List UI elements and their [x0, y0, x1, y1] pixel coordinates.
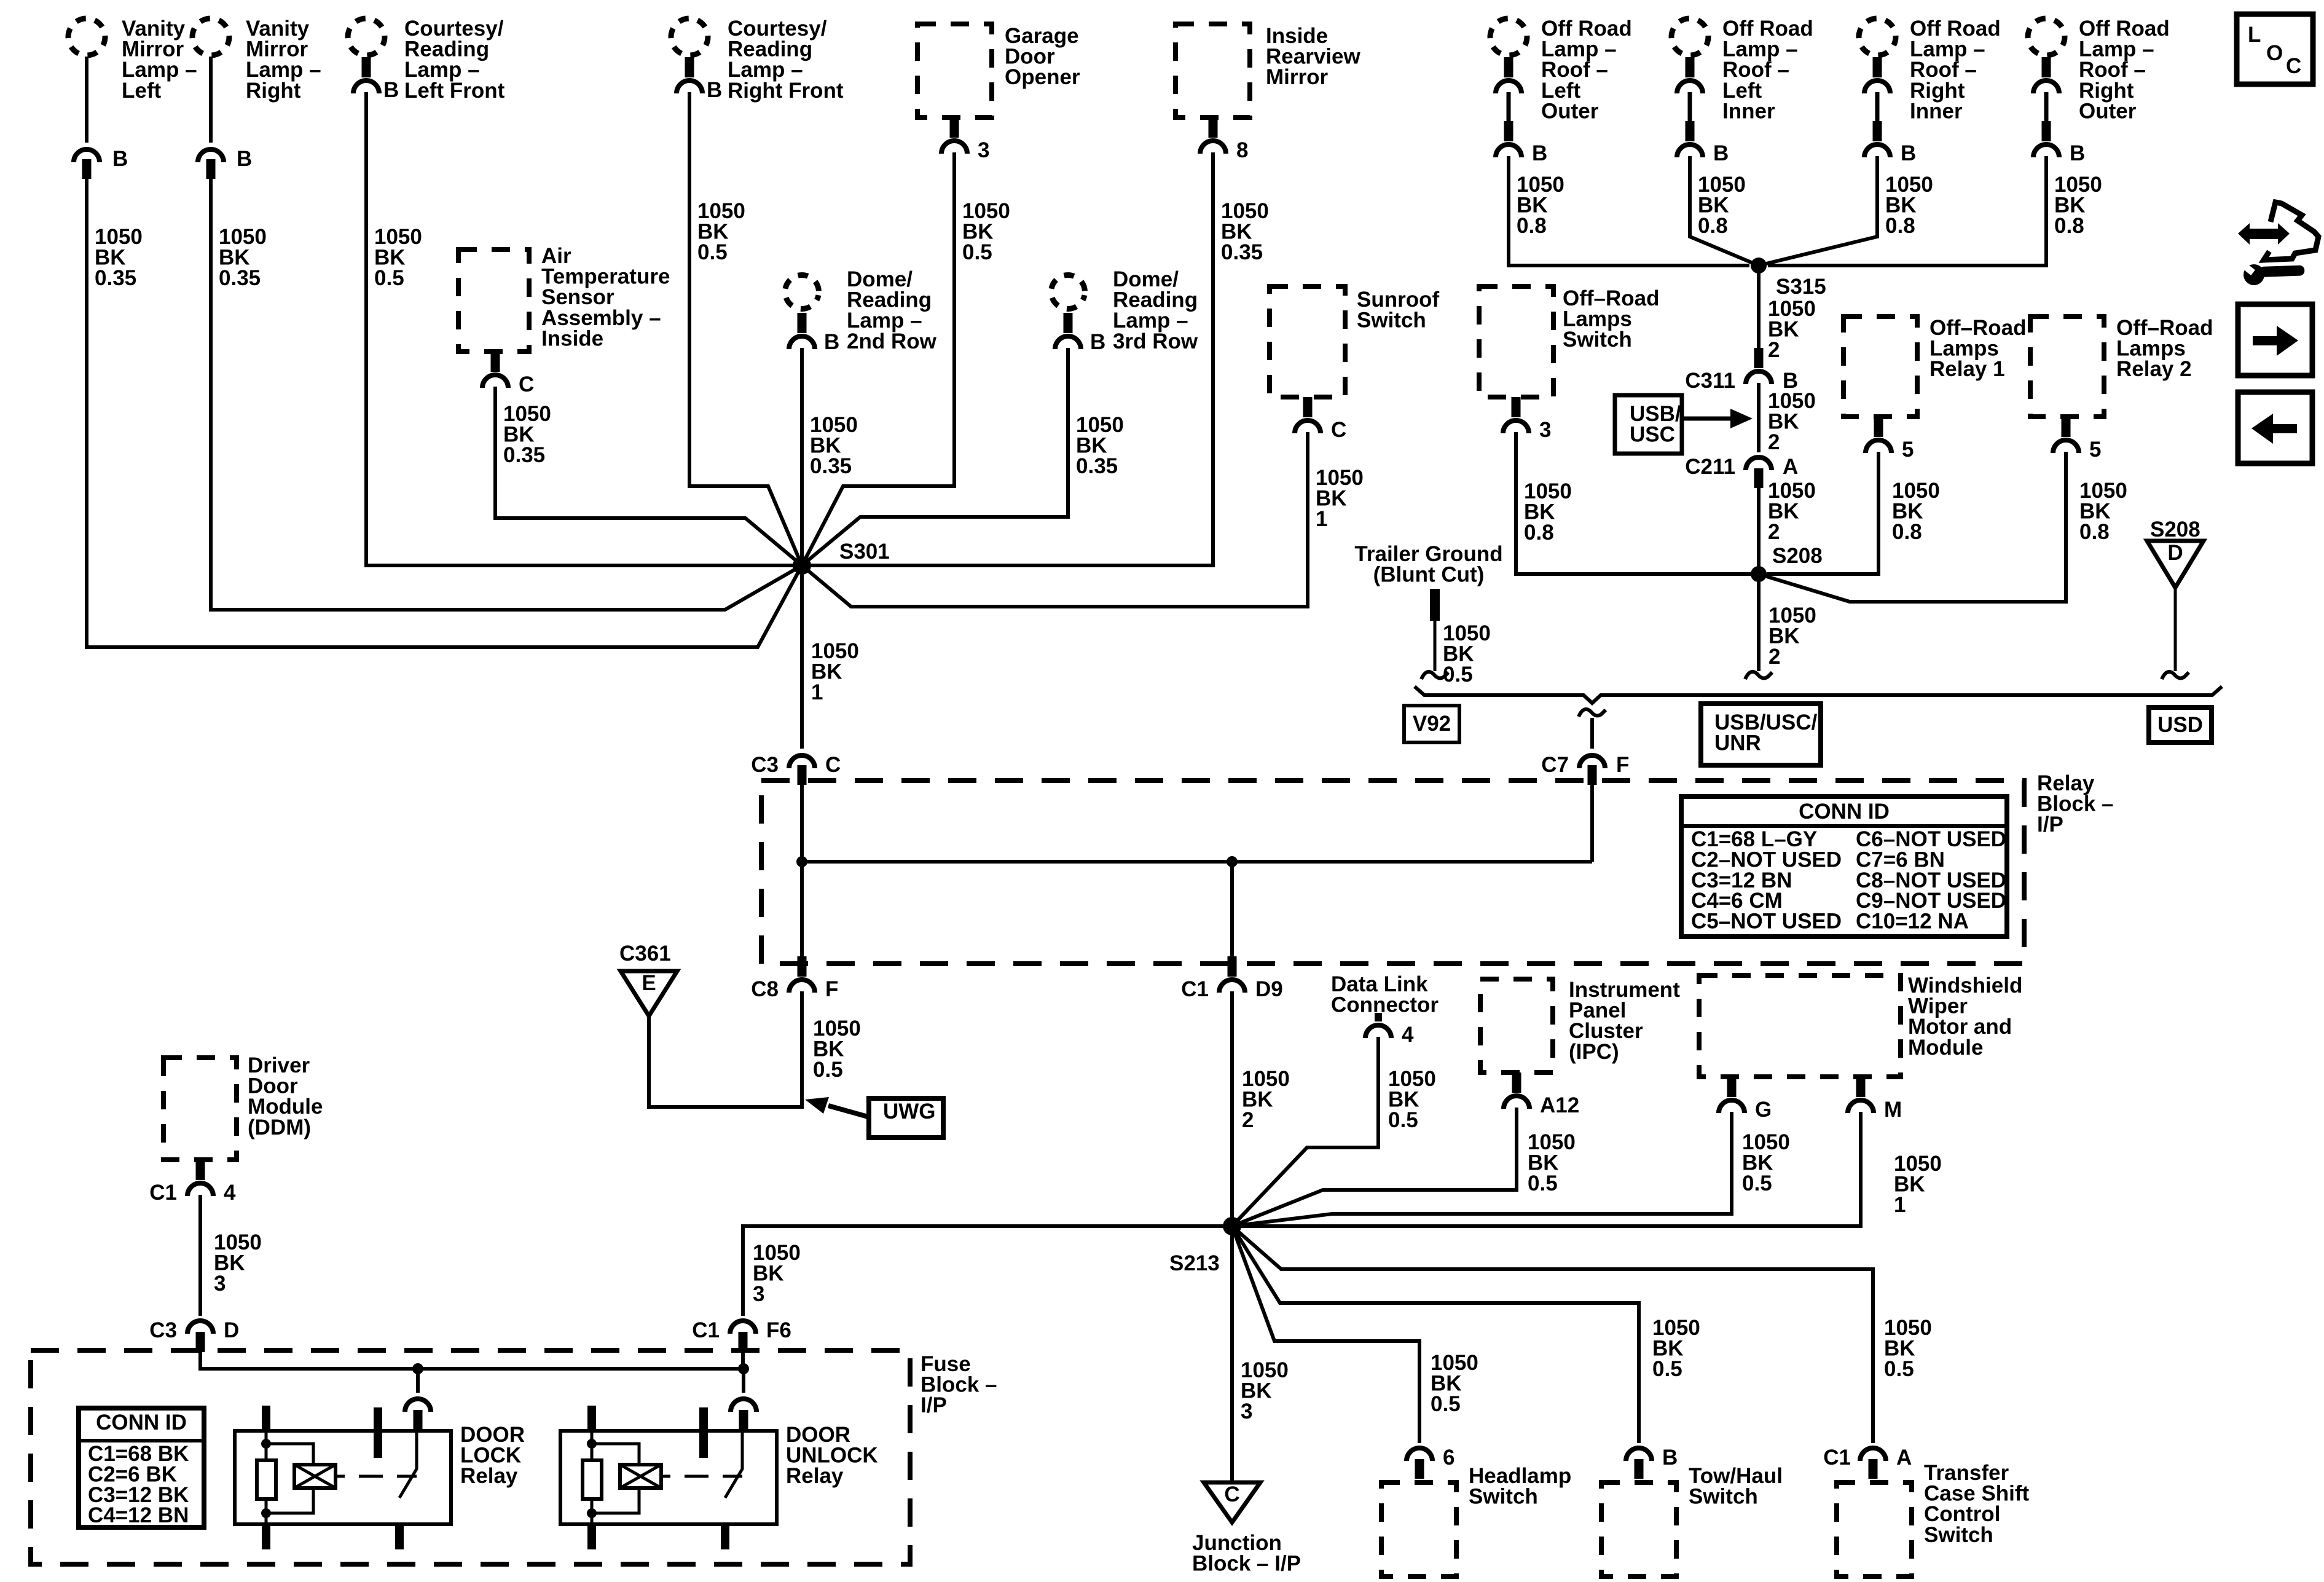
- wire C1 F6 into fuse block: [741, 1352, 745, 1369]
- connector B (off road Right Inner): [1864, 92, 1916, 165]
- svg-text:0.35: 0.35: [1221, 240, 1263, 264]
- svg-text:3: 3: [753, 1282, 764, 1306]
- component: Off-Road Lamps Switch: [1479, 286, 1660, 397]
- svg-text:Left: Left: [122, 79, 162, 103]
- svg-text:Relay: Relay: [460, 1464, 518, 1488]
- svg-text:Inside: Inside: [541, 326, 603, 350]
- svg-text:S301: S301: [839, 540, 890, 564]
- svg-text:B: B: [1090, 330, 1105, 354]
- svg-text:0.35: 0.35: [503, 443, 545, 467]
- svg-text:D9: D9: [1255, 977, 1283, 1001]
- wire vanity left to connector: [85, 57, 88, 143]
- svg-text:C8: C8: [751, 977, 779, 1001]
- component: Fuse Block - I/P: [31, 1350, 997, 1564]
- ground S208 D triangle: [2147, 517, 2204, 679]
- splice node S315: [1751, 258, 1826, 299]
- svg-text:0.8: 0.8: [1698, 214, 1728, 238]
- wire 1050 BK 1 S301 down to C3: [802, 565, 859, 749]
- svg-text:0.8: 0.8: [1885, 214, 1915, 238]
- svg-text:O: O: [2266, 41, 2283, 65]
- lamp connector (off road Left Inner): [1677, 57, 1703, 93]
- svg-text:C361: C361: [619, 942, 671, 966]
- svg-text:E: E: [642, 971, 656, 995]
- svg-text:2: 2: [1769, 645, 1780, 669]
- wire 1050 BK 0.5 S213 to tow/haul switch: [1232, 1226, 1700, 1443]
- svg-text:2: 2: [1768, 520, 1780, 544]
- svg-text:Right: Right: [246, 79, 301, 103]
- svg-text:(IPC): (IPC): [1569, 1040, 1619, 1064]
- component: Headlamp Switch: [1381, 1464, 1571, 1576]
- relay label: [460, 1423, 525, 1488]
- svg-text:C1: C1: [149, 1181, 177, 1205]
- svg-text:B: B: [824, 330, 839, 354]
- svg-text:C: C: [519, 372, 534, 396]
- wire 1050 BK 0.5 GDO to S301: [802, 152, 1010, 565]
- svg-text:C3: C3: [751, 753, 779, 777]
- lamp connector (off road Right Outer): [2033, 57, 2059, 93]
- component: Garage Door Opener: [917, 24, 1080, 117]
- wire vanity right to connector: [209, 57, 213, 143]
- svg-text:Connector: Connector: [1331, 993, 1439, 1017]
- svg-text:3: 3: [1241, 1399, 1252, 1423]
- connector B (tow/haul switch): [1626, 1446, 1678, 1479]
- svg-text:0.5: 0.5: [1652, 1357, 1682, 1381]
- wire 1050 BK 0.8 off road right inner to S315: [1759, 156, 1933, 266]
- svg-text:Switch: Switch: [1924, 1523, 1993, 1547]
- lamp connector (off road Right Inner): [1864, 57, 1890, 93]
- svg-text:0.5: 0.5: [697, 240, 728, 264]
- svg-text:D: D: [224, 1318, 239, 1342]
- svg-text:D: D: [2167, 541, 2183, 565]
- connector C211 A: [1685, 455, 1798, 488]
- connector G (wiper): [1719, 1077, 1772, 1122]
- svg-text:2nd Row: 2nd Row: [847, 329, 937, 353]
- wire 1050 BK 2 S315 to C311: [1759, 266, 1816, 362]
- icon: arrow left box: [2238, 392, 2312, 463]
- svg-text:C1: C1: [692, 1318, 720, 1342]
- connector C (sunroof switch): [1295, 397, 1346, 442]
- svg-text:Switch: Switch: [1469, 1485, 1538, 1509]
- lamp: Off Road Lamp - Roof - Left Inner: [1668, 15, 1813, 124]
- svg-text:2: 2: [1242, 1108, 1254, 1132]
- wire 1050 BK 2 C1 D9 to S213: [1232, 991, 1290, 1226]
- junction block I/P triangle C: [1192, 1482, 1301, 1576]
- component: Instrument Panel Cluster (IPC): [1480, 978, 1680, 1072]
- wire C3 to junction inside relay block: [800, 785, 804, 862]
- connector B (courtesy RF): [677, 57, 722, 102]
- connector B (off road Left Inner): [1677, 92, 1729, 165]
- wire 1050 BK 3 S213 to junction block: [1232, 1226, 1289, 1482]
- component: Windshield Wiper Motor and Module: [1699, 974, 2022, 1077]
- wire 1050 BK 0.8 relay 1 to S208: [1767, 452, 1940, 574]
- component: Inside Rearview Mirror: [1176, 24, 1360, 117]
- svg-text:0.8: 0.8: [1892, 520, 1922, 544]
- svg-text:C1: C1: [1823, 1446, 1851, 1470]
- wire 1050 BK 0.35 dome 2nd row to S301: [802, 348, 858, 565]
- svg-text:Relay: Relay: [786, 1464, 844, 1488]
- wire 1050 BK 0.5 S213 to headlamp switch: [1232, 1226, 1478, 1443]
- svg-text:USD: USD: [2157, 713, 2203, 737]
- svg-text:0.35: 0.35: [95, 266, 136, 290]
- connector 3 (garage door opener): [941, 117, 989, 162]
- svg-text:B: B: [383, 78, 399, 102]
- net label USD: [2149, 707, 2212, 742]
- wire 1050 BK 1 M to S213: [1241, 1112, 1942, 1226]
- svg-text:B: B: [237, 147, 252, 171]
- svg-text:UWG: UWG: [883, 1100, 936, 1124]
- svg-text:CONN ID: CONN ID: [96, 1411, 187, 1434]
- wire 1050 BK 0.8 off road right outer to S315: [1768, 156, 2102, 266]
- component: Transfer Case Shift Control Switch: [1837, 1461, 2029, 1576]
- wire C7 into relay block: [1590, 785, 1594, 862]
- wire 1050 BK 0.8 off-road switch to S208: [1516, 432, 1751, 574]
- svg-text:Switch: Switch: [1689, 1485, 1758, 1509]
- connector C8 F: [751, 956, 838, 1001]
- svg-text:S213: S213: [1169, 1251, 1220, 1275]
- svg-text:0.5: 0.5: [962, 240, 992, 264]
- svg-text:S208: S208: [1772, 544, 1823, 568]
- svg-text:Inner: Inner: [1910, 99, 1963, 123]
- svg-text:F: F: [825, 977, 838, 1001]
- lamp: Off Road Lamp - Roof - Right Inner: [1856, 15, 2001, 124]
- lamp: Courtesy/Reading Lamp - Left Front: [345, 15, 505, 103]
- svg-text:C: C: [1331, 418, 1346, 442]
- svg-text:C3: C3: [149, 1318, 177, 1342]
- svg-text:Switch: Switch: [1357, 309, 1426, 333]
- connector 5 (relay 1): [1866, 417, 1914, 462]
- wire 1050 BK 0.8 off road left inner to S315: [1690, 156, 1759, 266]
- svg-text:1: 1: [811, 680, 823, 704]
- conn id table (fuse block): [79, 1408, 204, 1527]
- svg-text:A: A: [1783, 455, 1798, 479]
- svg-text:4: 4: [224, 1181, 236, 1205]
- connector 3 (off-road lamps switch): [1503, 397, 1551, 442]
- connector M (wiper): [1848, 1077, 1902, 1122]
- svg-text:C10=12 NA: C10=12 NA: [1856, 910, 1969, 934]
- component: Tow/Haul Switch: [1601, 1464, 1783, 1576]
- splice node S213: [1169, 1217, 1241, 1275]
- wire 1050 BK 0.35 air temp to S301: [495, 387, 802, 565]
- svg-text:0.35: 0.35: [810, 454, 852, 478]
- svg-text:0.8: 0.8: [1517, 214, 1547, 238]
- svg-text:Block – I/P: Block – I/P: [1192, 1552, 1301, 1576]
- svg-text:B: B: [1532, 141, 1547, 165]
- connector 8 (inside rearview mirror): [1200, 117, 1248, 162]
- connector B (off road Left Outer): [1496, 92, 1547, 165]
- data link connector: [1331, 972, 1439, 1047]
- svg-text:3: 3: [1539, 418, 1551, 442]
- svg-text:Outer: Outer: [2079, 99, 2137, 123]
- wire 1050 BK 0.8 relay 2 to S208: [1759, 452, 2127, 602]
- component: Off-Road Lamps Relay 1: [1843, 316, 2027, 417]
- wire 1050 BK 0.35 vanity left to S301: [87, 179, 802, 647]
- svg-text:2: 2: [1768, 430, 1780, 454]
- svg-text:A12: A12: [1540, 1093, 1579, 1117]
- svg-text:0.8: 0.8: [2054, 214, 2084, 238]
- svg-text:0.5: 0.5: [374, 266, 404, 290]
- lamp: Dome/Reading Lamp - 3rd Row: [1048, 267, 1198, 353]
- svg-text:C: C: [2286, 54, 2301, 78]
- connector B (off road Right Outer): [2033, 92, 2085, 165]
- wire 1050 BK 2 S208 down to harness break: [1745, 574, 1816, 679]
- component: Driver Door Module (DDM): [163, 1053, 323, 1160]
- wire 1050 BK 0.5 DLC to S213: [1232, 1037, 1436, 1226]
- wire C3 D into fuse block bus: [200, 1352, 749, 1374]
- svg-text:L: L: [2248, 23, 2261, 47]
- svg-text:Opener: Opener: [1005, 65, 1080, 89]
- svg-text:Inner: Inner: [1722, 99, 1775, 123]
- svg-text:0.8: 0.8: [2079, 520, 2110, 544]
- svg-text:6: 6: [1443, 1446, 1454, 1470]
- svg-text:(DDM): (DDM): [248, 1116, 311, 1139]
- wire 1050 BK 0.35 IRM to S301: [802, 152, 1269, 565]
- icon: navigation wrench: [2238, 202, 2318, 285]
- wire 1050 BK 0.5 courtesy RF to S301: [689, 92, 802, 565]
- svg-text:0.8: 0.8: [1524, 521, 1554, 545]
- relay box: [560, 1406, 777, 1549]
- wire 1050 BK 2 C211 to S208: [1759, 479, 1816, 574]
- svg-text:USC: USC: [1630, 423, 1675, 447]
- wire 1050 BK 0.5 C8 to C361 ground: [649, 991, 861, 1107]
- wire horizontal inside relay block: [796, 856, 1592, 867]
- svg-text:8: 8: [1236, 138, 1248, 162]
- connector C1 D9: [1181, 956, 1283, 1001]
- svg-text:C1: C1: [1181, 977, 1209, 1001]
- relay connector from bus: [731, 1369, 756, 1430]
- component: Off-Road Lamps Relay 2: [2030, 316, 2213, 417]
- net label USB/USC/UNR: [1701, 704, 1821, 765]
- connector B (vanity right): [198, 147, 252, 179]
- wire 1050 BK 1 sunroof to S301: [802, 432, 1364, 607]
- svg-text:C: C: [825, 753, 841, 777]
- svg-text:C7: C7: [1541, 753, 1569, 777]
- harness brace: [1415, 687, 2222, 703]
- svg-text:0.5: 0.5: [1431, 1392, 1461, 1416]
- svg-text:3: 3: [978, 138, 989, 162]
- component: Relay Block - I/P: [761, 771, 2114, 964]
- svg-text:Switch: Switch: [1563, 328, 1632, 352]
- connector C311 B: [1685, 348, 1798, 393]
- svg-text:0.5: 0.5: [1388, 1108, 1418, 1132]
- ground C361 E triangle: [619, 942, 677, 1016]
- svg-text:0.5: 0.5: [813, 1058, 843, 1082]
- connector B (vanity left): [74, 147, 128, 179]
- conn id table (relay block): [1681, 797, 2007, 937]
- wire 1050 BK 0.35 dome 3rd row to S301: [802, 348, 1124, 565]
- splice node S208: [1751, 544, 1823, 582]
- svg-text:Left Front: Left Front: [404, 79, 505, 103]
- svg-text:S315: S315: [1776, 275, 1826, 299]
- wire 1050 BK 0.5 G to S213: [1232, 1112, 1790, 1226]
- connector C1 A (transfer case switch): [1823, 1446, 1912, 1479]
- svg-text:F: F: [1616, 753, 1629, 777]
- svg-text:5: 5: [2089, 438, 2101, 462]
- wire 1050 BK 2 C311 to C211: [1759, 383, 1816, 454]
- svg-text:1: 1: [1316, 507, 1327, 531]
- lamp: Courtesy/Reading Lamp - Right Front: [668, 15, 844, 103]
- svg-text:I/P: I/P: [2037, 813, 2063, 836]
- lamp: Vanity Mirror Lamp - Left: [65, 15, 197, 103]
- lamp: Off Road Lamp - Roof - Left Outer: [1487, 15, 1632, 124]
- svg-text:C: C: [1224, 1482, 1239, 1506]
- svg-text:1: 1: [1894, 1193, 1906, 1217]
- net label V92: [1404, 706, 1459, 742]
- svg-text:B: B: [1662, 1446, 1678, 1470]
- connector B (courtesy LF): [353, 57, 399, 102]
- svg-text:C211: C211: [1685, 455, 1735, 479]
- connector B (dome 2nd row): [789, 313, 839, 354]
- svg-text:Mirror: Mirror: [1266, 65, 1329, 89]
- svg-text:S208: S208: [2150, 517, 2200, 541]
- connector 5 (relay 2): [2053, 417, 2101, 462]
- connector C3 C: [751, 753, 841, 785]
- connector C3 D: [149, 1318, 239, 1352]
- svg-text:V92: V92: [1413, 712, 1451, 736]
- wire 1050 BK 0.5 courtesy LF to S301: [366, 92, 802, 565]
- icon: arrow right box: [2238, 304, 2312, 376]
- svg-text:B: B: [112, 147, 128, 171]
- svg-text:Relay 2: Relay 2: [2116, 357, 2192, 381]
- wire 1050 BK 0.5 S213 to transfer case switch: [1232, 1226, 1932, 1443]
- wire 1050 BK 3 DDM to C3 D: [200, 1195, 262, 1316]
- svg-text:0.5: 0.5: [1528, 1171, 1558, 1195]
- svg-text:F6: F6: [766, 1318, 791, 1342]
- svg-text:3: 3: [214, 1272, 226, 1296]
- wire 1050 BK 0.5 A12 to S213: [1232, 1108, 1576, 1226]
- connector C1 4 (DDM): [149, 1160, 236, 1205]
- trailer ground (blunt cut): [1354, 542, 1502, 687]
- connector B (dome 3rd row): [1055, 313, 1105, 354]
- svg-text:UNR: UNR: [1714, 731, 1761, 755]
- svg-text:CONN ID: CONN ID: [1799, 800, 1890, 824]
- svg-text:Module: Module: [1908, 1036, 1983, 1060]
- lamp: Dome/Reading Lamp - 2nd Row: [782, 267, 937, 353]
- connector C1 F6: [692, 1318, 791, 1352]
- wire junction down to C1 D9: [1230, 862, 1234, 958]
- lamp: Off Road Lamp - Roof - Right Outer: [2025, 15, 2170, 124]
- svg-text:2: 2: [1768, 338, 1780, 362]
- wire brace to C7: [1579, 709, 1606, 749]
- svg-text:I/P: I/P: [921, 1393, 947, 1417]
- relay label: [786, 1423, 878, 1488]
- component: Air Temperature Sensor Assembly - Inside: [458, 244, 670, 352]
- wire 1050 BK 0.8 off road left outer to S315: [1509, 156, 1749, 266]
- relay connector from bus: [405, 1369, 431, 1430]
- relay box: [235, 1406, 451, 1549]
- svg-text:0.5: 0.5: [1742, 1171, 1772, 1195]
- svg-text:4: 4: [1402, 1023, 1414, 1047]
- svg-text:B: B: [707, 78, 722, 102]
- label UWG with arrow: [805, 1097, 943, 1138]
- svg-text:0.35: 0.35: [219, 266, 261, 290]
- svg-text:Outer: Outer: [1541, 99, 1599, 123]
- svg-text:0.5: 0.5: [1884, 1357, 1914, 1381]
- svg-text:Right Front: Right Front: [728, 79, 844, 103]
- component: Sunroof Switch: [1270, 286, 1439, 397]
- svg-text:B: B: [2070, 141, 2085, 165]
- svg-text:Relay 1: Relay 1: [1929, 357, 2005, 381]
- connector 6 (headlamp switch): [1407, 1446, 1454, 1479]
- svg-text:B: B: [1901, 141, 1916, 165]
- svg-text:(Blunt Cut): (Blunt Cut): [1373, 563, 1485, 587]
- wire 1050 BK 0.35 vanity right to S301: [211, 179, 802, 610]
- svg-text:C4=12 BN: C4=12 BN: [88, 1503, 189, 1527]
- icon: LOC box: [2237, 14, 2313, 84]
- wire junction down to C8: [800, 862, 804, 958]
- svg-text:G: G: [1755, 1098, 1772, 1122]
- svg-text:A: A: [1896, 1446, 1912, 1470]
- svg-text:0.35: 0.35: [1076, 454, 1118, 478]
- label USB/USC with arrow: [1615, 395, 1753, 454]
- connector A12 (IPC): [1504, 1072, 1579, 1117]
- svg-text:B: B: [1713, 141, 1729, 165]
- lamp connector (off road Left Outer): [1496, 57, 1521, 93]
- svg-text:M: M: [1884, 1098, 1902, 1122]
- svg-text:C311: C311: [1685, 369, 1735, 393]
- svg-text:5: 5: [1902, 438, 1914, 462]
- wire 1050 BK 3 S213 to C1 F6: [743, 1226, 1232, 1316]
- splice node S301: [793, 540, 890, 575]
- svg-text:3rd Row: 3rd Row: [1113, 329, 1198, 353]
- connector C (air temp sensor): [482, 352, 534, 396]
- lamp: Vanity Mirror Lamp - Right: [189, 15, 321, 103]
- svg-text:C5–NOT USED: C5–NOT USED: [1691, 910, 1842, 934]
- connector C7 F: [1541, 753, 1629, 785]
